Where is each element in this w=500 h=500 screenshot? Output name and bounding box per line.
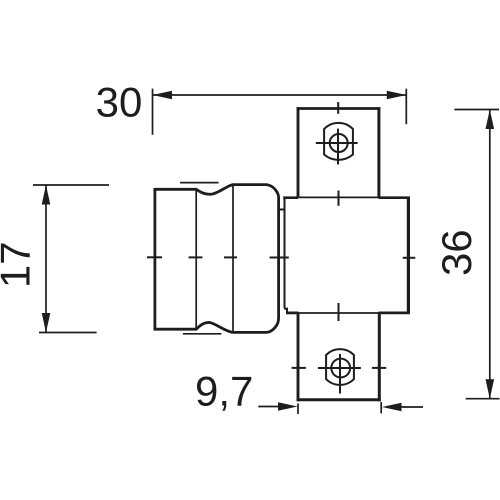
- top tab left edge: [297, 107, 300, 197]
- flange top edge thin behind tab: [298, 196, 379, 198]
- dim 36 arrow top: [486, 110, 495, 130]
- hex nut top circle: [330, 134, 348, 152]
- body outline: [155, 185, 279, 333]
- dim 17 extension bottom: [39, 332, 97, 334]
- mid tick inner line left: [189, 256, 203, 258]
- hex nut bottom outline: [326, 349, 354, 385]
- dim 30 extension left: [152, 89, 154, 135]
- top tab right edge: [377, 107, 380, 197]
- mid tick inner line right: [224, 256, 237, 258]
- bottom tab left center tick: [292, 367, 306, 369]
- mid tick body left edge: [147, 256, 162, 258]
- flange top edge left thick: [283, 196, 298, 199]
- dim 17 extension top: [33, 184, 109, 186]
- dim 17 line: [45, 185, 47, 333]
- hex nut bottom crosshair horizontal: [318, 367, 361, 369]
- dim 9.7 line left: [258, 406, 278, 408]
- center dash top tab top: [337, 102, 339, 114]
- flange bottom edge left thick: [286, 311, 299, 314]
- flange bottom edge right thick: [379, 311, 410, 314]
- body inner line left: [195, 190, 197, 330]
- hex nut top outline: [324, 123, 353, 160]
- flange top edge right thick: [379, 196, 410, 199]
- mid tick flange right edge: [403, 257, 416, 259]
- flange bottom edge thin behind tab: [299, 312, 379, 314]
- svg-text:30: 30: [96, 78, 143, 125]
- bottom tab bottom edge: [297, 398, 381, 401]
- dim 36 line: [489, 110, 491, 399]
- dim 36 extension bottom: [466, 398, 500, 400]
- dim 30 arrow left: [153, 91, 173, 100]
- hex nut top crosshair vertical: [337, 129, 339, 165]
- dim 30 arrow right: [387, 91, 407, 100]
- flange top jog: [277, 209, 285, 211]
- dim 9.7 extension right: [380, 402, 382, 413]
- dim 17 arrow top: [42, 185, 51, 205]
- center dash flange bottom: [338, 303, 340, 321]
- mid tick body right edge: [270, 257, 289, 259]
- dim 30 line: [153, 94, 407, 96]
- dim 9.7 extension left: [297, 404, 299, 415]
- bottom tab right center tick: [372, 367, 386, 369]
- body thin bottom line: [183, 333, 222, 335]
- dim 9.7 arrow right: [382, 403, 402, 412]
- dim 30 extension right: [405, 89, 407, 125]
- top tab top edge: [297, 107, 381, 110]
- hex nut bottom crosshair vertical: [339, 354, 341, 394]
- hex nut top crosshair horizontal: [316, 142, 358, 144]
- body inner line right: [232, 185, 234, 332]
- flange left edge: [284, 198, 286, 308]
- dim 36 extension top: [454, 109, 499, 111]
- dim 36 arrow bottom: [486, 379, 495, 399]
- flange bottom jog step: [284, 309, 287, 313]
- flange right edge: [407, 197, 410, 314]
- bottom tab right edge: [378, 313, 381, 401]
- bottom tab left edge: [297, 313, 300, 401]
- svg-text:17: 17: [0, 241, 39, 288]
- dim 9.7 arrow left: [278, 402, 298, 411]
- hex nut bottom circle: [331, 359, 350, 378]
- body thin top line: [180, 182, 219, 184]
- svg-text:36: 36: [433, 229, 480, 276]
- svg-text:9,7: 9,7: [195, 368, 253, 415]
- center dash flange top: [338, 191, 340, 206]
- dim 17 arrow bottom: [42, 313, 51, 333]
- dim 9.7 line right: [401, 406, 423, 408]
